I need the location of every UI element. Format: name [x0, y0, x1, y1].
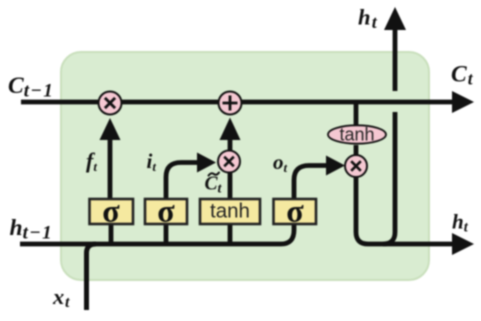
wire: i gate curve with arrow into small multiply node	[166, 163, 198, 200]
wire: stem below sigma f gate	[109, 224, 114, 246]
svg-text:tanh: tanh	[210, 200, 250, 223]
multiply node (output)	[345, 155, 367, 177]
sigma gate f (box)	[90, 199, 134, 224]
wire: bottom h line from h_t-1 curving up into o gate	[20, 224, 294, 244]
svg-text:σ: σ	[157, 193, 175, 229]
svg-text:σ: σ	[102, 193, 120, 229]
arrowhead C_t output	[452, 91, 474, 113]
wire: stem below sigma i gate	[164, 224, 169, 246]
svg-text:ht: ht	[358, 5, 378, 32]
svg-text:tanh: tanh	[339, 125, 374, 145]
plus node on C line	[219, 92, 242, 115]
tanh ellipse	[328, 125, 386, 143]
arrowhead h_t output right	[452, 233, 474, 255]
wire: C line (cell state, horizontal top)	[21, 100, 452, 105]
svg-text:Ct−1: Ct−1	[8, 73, 53, 101]
wire: x_t input rising into bottom line	[87, 244, 97, 310]
sigma gate o (box)	[274, 199, 317, 224]
wire: tanh ellipse to output multiply node	[354, 145, 359, 156]
svg-text:ht: ht	[452, 210, 469, 236]
svg-text:Ct: Ct	[451, 62, 474, 89]
sigma gate i (box)	[145, 199, 187, 224]
wire: branch from C line down to tanh ellipse	[354, 104, 359, 126]
svg-text:xt: xt	[52, 284, 70, 311]
wire: tanh gate up through multiply to plus node	[228, 173, 233, 199]
tanh gate (box)	[200, 199, 260, 224]
wire: branch up to h_t top (lower segment, gap at C line)	[383, 112, 395, 244]
multiply node (input x candidate)	[218, 151, 240, 173]
svg-text:σ: σ	[286, 193, 304, 229]
wire: stem below tanh gate	[228, 224, 233, 246]
multiply node on C line (forget)	[99, 92, 122, 115]
LSTM cell body	[61, 52, 429, 280]
wire: o gate curve with arrow into output multiply node	[294, 166, 327, 200]
svg-text:ht−1: ht−1	[10, 215, 52, 243]
wire: f gate up arrow to multiply node	[108, 136, 113, 199]
wire: branch up to h_t top (upper segment with arrow)	[393, 30, 398, 91]
wire: output multiply down, curving right to h_t output	[356, 176, 452, 244]
